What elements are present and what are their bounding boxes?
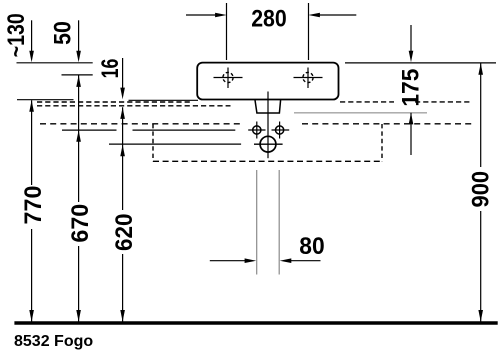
svg-text:8532 Fogo: 8532 Fogo (14, 333, 93, 350)
svg-text:80: 80 (299, 233, 324, 260)
svg-text:~130: ~130 (3, 13, 30, 57)
svg-text:670: 670 (67, 204, 94, 243)
svg-text:770: 770 (20, 186, 47, 225)
svg-text:280: 280 (251, 6, 287, 33)
svg-text:175: 175 (397, 69, 424, 107)
svg-text:620: 620 (111, 213, 138, 251)
svg-text:16: 16 (97, 59, 124, 79)
svg-text:50: 50 (49, 21, 76, 45)
svg-text:900: 900 (468, 171, 495, 208)
